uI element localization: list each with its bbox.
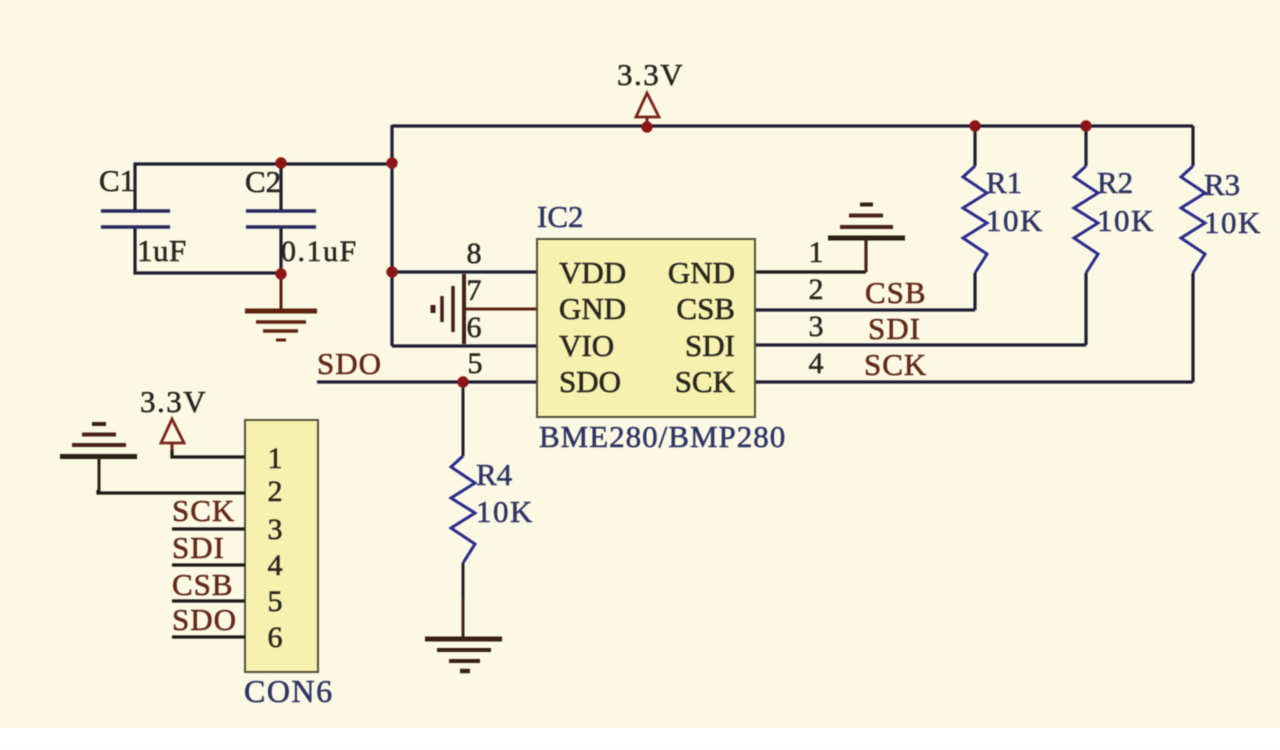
svg-text:5: 5 xyxy=(268,585,283,618)
svg-text:SDI: SDI xyxy=(685,328,735,363)
ground at IC2 pin 7 (sideways) xyxy=(433,274,464,344)
wire: SCK row IC2 pin 4 to R3 xyxy=(756,380,1193,383)
svg-text:SDO: SDO xyxy=(317,346,382,381)
svg-text:SDO: SDO xyxy=(559,364,621,399)
junction dot at C2 top xyxy=(275,157,286,168)
IC U1 BME280 box xyxy=(537,239,755,417)
svg-text:1: 1 xyxy=(809,236,824,269)
svg-text:CON6: CON6 xyxy=(244,673,334,709)
wire: IC2 pin 1 GND stub xyxy=(756,270,866,273)
power 3.3V top xyxy=(636,93,659,126)
ground below R4 xyxy=(425,639,502,671)
wire: CSB row IC2 pin 2 to R1 xyxy=(756,308,975,311)
svg-text:SDO: SDO xyxy=(172,602,237,637)
wire: capacitor bottom wire C1 to C2 ground xyxy=(135,228,281,273)
resistor R1 xyxy=(963,126,987,310)
wire: top 3.3V rail horizontal xyxy=(392,124,1193,127)
power 3.3V at CON6 xyxy=(161,419,184,457)
label R1 value xyxy=(986,165,1044,238)
svg-text:10K: 10K xyxy=(1204,205,1262,240)
wire: IC2 pin 6 VIO stub xyxy=(392,344,537,347)
svg-text:8: 8 xyxy=(467,237,482,270)
svg-text:1uF: 1uF xyxy=(137,233,187,268)
junction dot at R2 top xyxy=(1080,120,1091,131)
label R2 value xyxy=(1097,165,1155,238)
svg-text:2: 2 xyxy=(809,273,824,306)
svg-text:4: 4 xyxy=(809,347,824,380)
svg-text:2: 2 xyxy=(268,475,283,508)
wire: CON6 pin 4 stub SDI xyxy=(172,563,245,566)
svg-text:R1: R1 xyxy=(986,165,1022,200)
wire: capacitor top wire C1 to rail xyxy=(135,164,392,210)
svg-text:3.3V: 3.3V xyxy=(617,57,684,92)
wire: CON6 pin 5 stub CSB xyxy=(172,599,245,602)
svg-text:VIO: VIO xyxy=(559,328,614,363)
resistor R3 xyxy=(1181,126,1205,382)
wire: SDI row IC2 pin 3 to R2 xyxy=(756,343,1086,346)
svg-text:GND: GND xyxy=(668,255,735,290)
wire: C2 bottom stub xyxy=(279,228,282,273)
svg-text:C2: C2 xyxy=(245,164,281,199)
svg-text:1: 1 xyxy=(268,442,283,475)
connector CON6 box xyxy=(245,420,318,672)
junction dot at rail / VDD pin row xyxy=(386,266,397,277)
svg-text:10K: 10K xyxy=(986,203,1044,238)
svg-text:VDD: VDD xyxy=(559,255,626,290)
label R3 value xyxy=(1204,167,1262,240)
wire: CON6 pin 2 stub from ground xyxy=(98,490,245,493)
wire: CON6 pin 1 stub from 3.3V xyxy=(172,450,245,457)
svg-text:3: 3 xyxy=(809,310,824,343)
svg-text:6: 6 xyxy=(268,621,283,654)
svg-text:BME280/BMP280: BME280/BMP280 xyxy=(539,419,786,454)
svg-text:R2: R2 xyxy=(1097,165,1133,200)
wire: CON6 pin 3 stub SCK xyxy=(172,527,245,530)
svg-text:5: 5 xyxy=(468,347,483,380)
svg-text:CSB: CSB xyxy=(676,291,735,326)
bottom white strip xyxy=(0,728,1280,750)
wire: IC2 pin 8 VDD stub xyxy=(392,270,537,273)
svg-text:CSB: CSB xyxy=(865,275,927,310)
wire: IC pin1 ground stem xyxy=(864,240,867,272)
svg-text:6: 6 xyxy=(467,311,482,344)
svg-text:R4: R4 xyxy=(476,457,513,492)
ground below C2 xyxy=(245,274,317,340)
svg-text:SDI: SDI xyxy=(868,311,921,346)
svg-text:0.1uF: 0.1uF xyxy=(281,235,358,268)
junction dot at SDO / R4 xyxy=(457,376,468,387)
junction dot at 3.3V power on top rail xyxy=(641,121,652,132)
wire: left vertical rail from top rail to VIO pin row xyxy=(390,125,393,346)
ground at IC2 pin 1 (inverted) xyxy=(828,205,905,239)
resistor R2 xyxy=(1074,126,1098,345)
svg-text:3.3V: 3.3V xyxy=(140,384,207,419)
wire: R4 bottom stub to ground xyxy=(462,563,465,600)
label R4 value xyxy=(476,457,534,529)
ground at CON6 pin 2 (inverted) xyxy=(60,424,137,492)
junction dot at rail / cap top wire xyxy=(386,157,397,168)
junction dot at C2 bottom / ground xyxy=(275,268,286,279)
wire: IC2 pin 7 GND stub xyxy=(464,308,537,311)
svg-text:R3: R3 xyxy=(1204,167,1240,202)
svg-text:C1: C1 xyxy=(99,163,135,198)
svg-text:7: 7 xyxy=(467,274,482,307)
svg-text:10K: 10K xyxy=(1097,203,1155,238)
svg-text:SCK: SCK xyxy=(675,364,736,399)
resistor R4 xyxy=(451,456,475,563)
svg-text:3: 3 xyxy=(268,513,283,546)
svg-text:SDI: SDI xyxy=(172,530,225,565)
junction dot at R1 top xyxy=(969,120,980,131)
svg-text:IC2: IC2 xyxy=(537,199,584,234)
wire: C2 top stub xyxy=(279,163,282,210)
svg-text:GND: GND xyxy=(559,291,626,326)
svg-text:CSB: CSB xyxy=(172,567,234,602)
wire: SDO junction down to R4 xyxy=(462,382,465,456)
wire: SDO net to IC2 pin 5 xyxy=(317,380,537,383)
capacitor C2 xyxy=(246,211,316,227)
svg-text:SCK: SCK xyxy=(172,493,235,528)
wire: CON6 pin 6 stub SDO xyxy=(172,635,245,638)
svg-text:SCK: SCK xyxy=(864,347,927,382)
capacitor C1 xyxy=(101,211,170,227)
svg-text:4: 4 xyxy=(268,549,283,582)
svg-text:10K: 10K xyxy=(476,494,534,529)
